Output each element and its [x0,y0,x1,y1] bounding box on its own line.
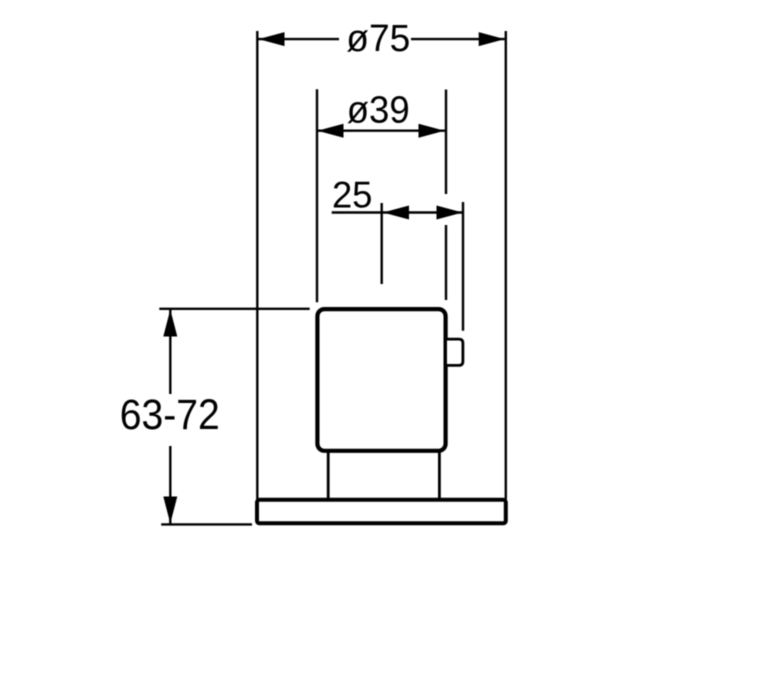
dimension ø75: dimension line left segment [259,38,340,40]
dimension 63-72: dimension line upper segment [169,310,171,395]
valve body outline [317,309,445,451]
side outlet tab [446,339,463,365]
dimension 25: right arrowhead [437,206,463,220]
stem left line [327,451,330,500]
svg-text:ø75: ø75 [346,18,410,60]
dimension ø39: right arrowhead [419,124,445,138]
base plate [257,500,506,524]
dimension 63-72: bottom extension line [161,523,252,525]
dimension ø75: left extension line [256,31,258,499]
dimension 25: centre extension line [381,203,383,284]
dimension 63-72: up arrowhead [163,310,177,337]
dimension ø39: dimension line [318,129,446,131]
svg-text:25: 25 [332,174,373,215]
svg-text:63-72: 63-72 [120,392,220,439]
svg-text:ø39: ø39 [347,89,410,131]
dimension ø75: left arrowhead [259,32,285,46]
dimension ø75: dimension line right segment [411,38,505,40]
dimension 25: dimension line with tail [332,211,463,213]
dimension 63-72: top extension line [159,308,309,310]
dimension ø39: right extension line upper segment [445,90,447,195]
dimension ø75: right extension line [505,31,507,499]
dimension ø75: right arrowhead [479,32,505,46]
dimension ø39: left arrowhead [318,124,344,138]
dimension 25: right extension line [462,202,464,331]
dimension ø39: right extension line lower segment [445,225,447,300]
dimension 25: left arrowhead [383,206,409,220]
dimension 63-72: dimension line lower segment [169,446,171,524]
dimension 63-72: down arrowhead [163,497,177,524]
stem right line [438,451,441,500]
dimension ø39: left extension line [316,89,318,302]
